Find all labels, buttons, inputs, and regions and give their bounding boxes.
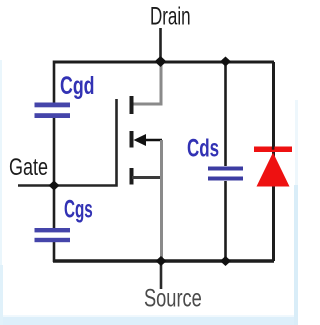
wire Cds branch [224, 62, 227, 261]
wire source stub [132, 176, 161, 179]
transistor channel source segment [130, 168, 134, 185]
wire bottom rail [53, 259, 274, 263]
node drain junction [155, 56, 167, 67]
border strip bottom [0, 315, 298, 317]
wire drain internal (gray) [132, 63, 161, 104]
wire top rail [53, 61, 274, 64]
wire gate lead and gate bar [18, 99, 117, 186]
diode D1 triangle [257, 153, 290, 187]
node Cds bottom junction [220, 256, 231, 266]
svg-text:Cds: Cds [187, 134, 219, 162]
border strip right [294, 185, 298, 325]
transistor channel body segment [130, 131, 134, 148]
capacitor Cgd [35, 103, 71, 119]
diode D1 cathode bar [254, 147, 292, 153]
wire left branch (Cgd/Cgs column) [53, 61, 56, 263]
border strip left [0, 60, 2, 325]
svg-text:Drain: Drain [150, 2, 191, 30]
transistor channel drain segment [130, 96, 134, 114]
svg-text:Source: Source [144, 284, 202, 313]
wire source internal vertical (gray) [160, 140, 163, 259]
svg-text:Cgs: Cgs [64, 196, 93, 224]
node Cds top junction [220, 57, 231, 67]
capacitor Cds [208, 167, 243, 181]
wire drain lead [159, 28, 162, 62]
wire right vertical (diode branch) [272, 62, 275, 261]
svg-text:Gate: Gate [9, 155, 48, 181]
node gate junction [49, 181, 60, 191]
wire source lead [160, 262, 163, 289]
capacitor Cgs [35, 228, 71, 242]
node source bottom junction [156, 256, 167, 266]
transistor body arrow [134, 134, 163, 146]
svg-text:Cgd: Cgd [60, 71, 95, 100]
